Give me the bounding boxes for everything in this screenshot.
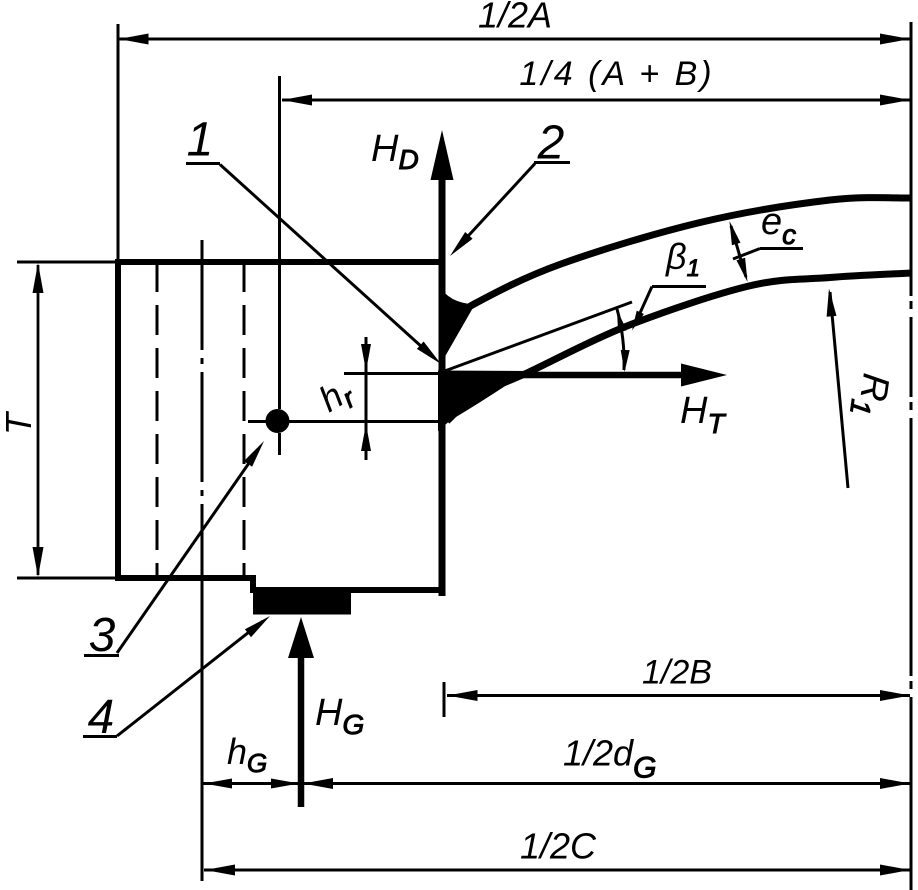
dimension line 1/2A [119,38,910,41]
callout 4 leader [117,621,263,736]
force arrow H_D head [431,130,454,180]
1/2dG arrow right [880,778,910,789]
extension line flange bottom [17,577,115,580]
svg-text:hr: hr [312,369,362,424]
line through load point [248,420,442,423]
load point stub below [278,433,281,455]
h_G arrow left [204,779,232,789]
h_r arrow upper [361,344,371,371]
force arrow H_G stem [298,656,305,807]
1/2B arrow right [880,690,910,701]
callout 1 arrow [417,342,441,365]
h_G arrow right [271,779,299,789]
h_r arrow lower [361,424,371,451]
1/2B arrow left [448,690,478,701]
shell inner surface [447,273,911,421]
1/4(A+B) arrow left [282,95,312,106]
dimension line 1/4(A+B) [282,99,910,102]
dimension line 1/2B [447,694,910,697]
1/2dG arrow left [303,778,333,789]
extension line loading point [278,76,281,409]
R1 arrow [827,289,837,317]
svg-text:R1: R1 [844,370,897,419]
svg-text:1/2C: 1/2C [520,826,597,867]
beta1 leader arrow [632,311,644,331]
hub fillet (upper) [439,286,474,366]
dimension line h_G [203,782,300,785]
flange top face [115,259,446,265]
h_r reference line [344,372,442,375]
svg-text:1/4 (A + B): 1/4 (A + B) [519,55,714,93]
bore line / H_D line of action [439,180,446,596]
e_c measure line [731,226,746,277]
1/2C arrow right [880,865,910,876]
callout 2 arrow [450,232,473,256]
gasket [253,591,351,615]
svg-text:1/2B: 1/2B [642,654,712,692]
svg-text:T: T [0,410,39,435]
e_c leader [733,249,760,260]
dimension line 1/2dG [302,782,910,785]
callout 1 underline [186,162,220,165]
beta1 angle arc [617,309,624,370]
1/2B extension stub [443,682,446,717]
callout 2 leader [458,164,535,248]
1/4(A+B) arrow right [880,95,910,106]
dimension line 1/2C [204,869,910,872]
callout 3 arrow [244,441,264,467]
h_r dimension line [365,337,368,460]
center line dot 3 [910,681,913,689]
shell outer surface [446,198,911,326]
dimension line T [37,265,40,575]
svg-text:1: 1 [187,114,214,167]
center line dot 2 [910,402,913,410]
svg-text:1/2dG: 1/2dG [563,733,656,785]
e_c arrow lower [737,258,748,282]
label R1 [844,370,897,419]
callout 3 leader [117,450,258,653]
bolt hole edge (right, hidden) [243,262,246,578]
raised face bottom [250,587,446,593]
bolt circle load point [266,409,290,433]
flange outer edge (left) [115,259,121,581]
extension line flange OD [117,24,120,259]
svg-text:HT: HT [680,390,726,439]
center line of flange (right) [910,22,913,296]
center line segment 3 [910,418,913,676]
e_c arrow upper [730,221,741,245]
center line dot 1 [910,301,913,309]
center line segment 2 [910,317,913,397]
1/2A arrow left [119,34,149,45]
svg-text:1/2A: 1/2A [478,0,552,36]
hub fillet (lower) [439,371,527,430]
beta1 arc arrow upper [617,310,627,332]
T arrow up [33,263,44,293]
svg-text:HG: HG [315,692,364,740]
svg-text:β1: β1 [665,236,700,282]
callout 4 arrow [245,616,270,637]
beta1 underline [652,285,706,288]
1/2C arrow left [205,865,235,876]
svg-text:HD: HD [371,128,419,175]
force arrow H_T head [681,364,727,387]
bolt circle center line [201,240,204,578]
beta1 arc arrow lower [621,350,630,372]
callout 3 underline [84,654,119,657]
label h_r [312,369,362,424]
raised face step [250,575,256,590]
e_c underline [760,247,803,250]
force arrow H_G head [288,617,314,658]
R1 leader line [830,292,848,488]
shell mid-surface tangent line [442,302,632,372]
callout 2 underline [534,161,570,164]
force arrow H_T stem [442,372,690,379]
center line segment 4 [910,697,913,890]
label T [0,410,39,435]
1/2A arrow right [880,34,910,45]
callout 4 underline [83,735,117,738]
flange bottom face [115,575,256,581]
svg-text:hG: hG [227,731,267,778]
extension line flange top [17,261,115,264]
T arrow down [33,547,44,577]
callout 1 leader [220,165,433,358]
bolt hole edge (left, hidden) [156,262,159,578]
bolt circle extension line (below flange) [201,578,204,881]
beta1 leader [635,287,652,325]
